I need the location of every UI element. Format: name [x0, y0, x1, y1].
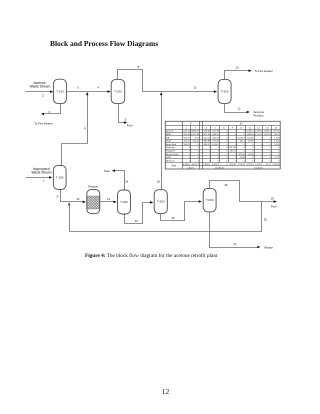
svg-text:T-250: T-250 — [56, 175, 64, 179]
svg-text:701.17: 701.17 — [230, 151, 237, 153]
section heading — [50, 39, 158, 48]
svg-text:10,639.35: 10,639.35 — [215, 167, 225, 169]
svg-text:1: 1 — [42, 94, 44, 98]
svg-text:472.11: 472.11 — [273, 131, 280, 133]
stream 6/10: T-250 bottoms to reactor — [57, 190, 86, 204]
svg-text:15: 15 — [171, 216, 175, 220]
svg-text:Hydrogen: Hydrogen — [166, 146, 176, 149]
svg-text:Total: Total — [171, 165, 176, 168]
vessel T-500 — [154, 190, 167, 214]
svg-text:Water: Water — [166, 140, 172, 143]
svg-text:18: 18 — [224, 183, 228, 187]
svg-text:2,469.7: 2,469.7 — [255, 131, 263, 133]
svg-text:8,126.53: 8,126.53 — [254, 167, 263, 169]
svg-text:13: 13 — [235, 65, 239, 69]
svg-text:187.56: 187.56 — [238, 154, 245, 156]
svg-text:20: 20 — [264, 218, 268, 222]
svg-text:724.12: 724.12 — [192, 141, 199, 143]
svg-text:594.55: 594.55 — [184, 144, 191, 146]
vessel T-200 — [111, 79, 125, 103]
svg-text:Acetic Acid: Acetic Acid — [166, 143, 177, 146]
stream 13: T-400 bottoms to T-500 — [125, 201, 154, 223]
svg-text:1.023: 1.023 — [274, 137, 280, 139]
svg-text:Fuel: Fuel — [271, 204, 277, 208]
svg-text:1,845.2: 1,845.2 — [264, 131, 272, 133]
svg-text:101.39: 101.39 — [212, 131, 219, 133]
svg-text:2,575.1: 2,575.1 — [255, 164, 263, 166]
stream 18/19: T-600 overhead to fuel — [210, 181, 277, 209]
svg-text:87.95: 87.95 — [248, 141, 254, 143]
vessel T-250 — [53, 165, 66, 189]
svg-text:Product: Product — [254, 114, 264, 118]
svg-text:876.53: 876.53 — [230, 164, 237, 166]
svg-text:24.66: 24.66 — [248, 154, 254, 156]
svg-text:19: 19 — [271, 197, 275, 201]
stream 16: T-500 overhead joining stream 8 — [157, 92, 163, 189]
svg-text:2,027.8: 2,027.8 — [272, 164, 280, 166]
svg-text:T-500: T-500 — [157, 200, 165, 204]
vessel T-400 — [118, 190, 131, 214]
svg-text:16: 16 — [157, 179, 161, 183]
svg-text:2,677.09: 2,677.09 — [202, 134, 211, 136]
stream 5: T-200 bottoms to fuel — [119, 104, 133, 128]
svg-text:3,227.5: 3,227.5 — [246, 164, 254, 166]
svg-text:8: 8 — [137, 65, 139, 69]
vessel T-600 — [203, 188, 216, 212]
stream 2: T-100 bottoms to fire heater — [34, 104, 60, 126]
svg-text:12: 12 — [237, 106, 241, 110]
stream 3/4: T-100 overhead to T-200 — [67, 86, 111, 93]
svg-text:7,048.2: 7,048.2 — [203, 164, 211, 166]
svg-text:Waste Stream: Waste Stream — [30, 85, 51, 89]
svg-text:5: 5 — [125, 118, 127, 122]
svg-text:2,139.89: 2,139.89 — [202, 131, 211, 133]
svg-text:1,524.1: 1,524.1 — [212, 144, 220, 146]
svg-text:12: 12 — [107, 197, 111, 201]
svg-text:1,214.1: 1,214.1 — [255, 134, 263, 136]
svg-text:Fuel: Fuel — [104, 169, 110, 173]
svg-text:T-400: T-400 — [120, 200, 128, 204]
svg-text:Methanol: Methanol — [166, 159, 175, 162]
svg-text:13: 13 — [135, 219, 139, 223]
stream 13: T-300 overhead to fire heater — [225, 65, 273, 79]
svg-text:3: 3 — [77, 86, 79, 90]
stream 9: T-250 overhead joining stream 3 — [62, 92, 89, 165]
svg-text:MIBK: MIBK — [166, 134, 172, 136]
feed stream 1: acetone waste — [26, 81, 54, 98]
svg-text:147.56: 147.56 — [212, 141, 219, 143]
svg-text:1,057.38: 1,057.38 — [191, 134, 200, 136]
svg-text:504.67: 504.67 — [184, 137, 191, 139]
svg-text:147.2: 147.2 — [240, 141, 246, 143]
stream 14: T-400 overhead to fuel — [104, 169, 129, 190]
stream 20: recycle to reactor feed — [70, 202, 268, 232]
svg-text:Propylene: Propylene — [166, 150, 176, 153]
svg-text:Reactor: Reactor — [88, 184, 98, 188]
svg-text:Acetone: Acetone — [166, 130, 174, 133]
svg-text:2,502.2: 2,502.2 — [212, 164, 220, 166]
svg-text:T-600: T-600 — [206, 198, 214, 202]
svg-text:T-200: T-200 — [114, 90, 122, 94]
svg-text:143.66: 143.66 — [247, 137, 254, 139]
svg-text:1,893.4: 1,893.4 — [246, 134, 254, 136]
stream 17: T-600 bottoms to waste — [210, 212, 274, 250]
stream 8: T-200 overhead — [118, 65, 218, 93]
svg-text:T-100: T-100 — [56, 89, 64, 93]
svg-text:4,671.4: 4,671.4 — [192, 164, 200, 166]
page number — [162, 387, 170, 396]
svg-text:1,025.9: 1,025.9 — [238, 137, 246, 139]
svg-text:1,025: 1,025 — [274, 144, 280, 146]
svg-text:95.71: 95.71 — [266, 164, 272, 166]
vessel T-100 — [53, 79, 66, 103]
svg-text:11.89: 11.89 — [240, 157, 246, 159]
svg-text:17: 17 — [233, 242, 237, 246]
svg-text:4,499.1: 4,499.1 — [183, 164, 191, 166]
svg-text:10: 10 — [76, 197, 80, 201]
stream 12: T-300 bottoms acetone product — [225, 104, 265, 118]
svg-text:11: 11 — [194, 85, 197, 89]
svg-text:DIPE: DIPE — [166, 157, 171, 159]
stream 12: reactor effluent to T-400 — [100, 197, 117, 203]
svg-text:86.72: 86.72 — [274, 134, 280, 136]
stream summary table — [165, 121, 280, 169]
recycle stream 20 junction arrow — [68, 202, 71, 205]
reactor R-100 — [87, 184, 100, 213]
svg-text:994.57: 994.57 — [204, 144, 211, 146]
svg-text:Mesityl Oxide: Mesityl Oxide — [166, 153, 179, 156]
svg-text:Waste: Waste — [264, 246, 273, 250]
svg-text:Waste Stream: Waste Stream — [31, 170, 51, 174]
svg-text:105.33: 105.33 — [264, 134, 271, 136]
svg-text:Fuel: Fuel — [127, 124, 133, 128]
svg-text:7: 7 — [43, 179, 45, 183]
feed stream 7: isopropanol waste — [26, 167, 53, 183]
svg-text:4,637.1: 4,637.1 — [187, 167, 195, 169]
svg-text:280.61: 280.61 — [212, 137, 219, 139]
svg-text:T-300: T-300 — [221, 90, 229, 94]
svg-text:212.42: 212.42 — [238, 164, 245, 166]
svg-text:6: 6 — [57, 195, 59, 199]
figure caption — [85, 253, 217, 259]
svg-text:1.775: 1.775 — [274, 157, 280, 159]
svg-text:1,150.61: 1,150.61 — [202, 137, 211, 139]
svg-text:14: 14 — [125, 179, 129, 183]
svg-text:To Fire Heater: To Fire Heater — [34, 121, 52, 125]
svg-text:5,060.1: 5,060.1 — [246, 131, 254, 133]
svg-text:1,204: 1,204 — [274, 141, 280, 143]
svg-text:985.98: 985.98 — [204, 141, 211, 143]
stream 15: T-500 bottoms to T-600 — [161, 200, 202, 220]
vessel T-300 — [218, 79, 231, 103]
svg-text:4: 4 — [97, 86, 99, 90]
svg-text:750.51: 750.51 — [184, 141, 191, 143]
svg-text:To Fire Heater: To Fire Heater — [254, 69, 272, 73]
svg-text:175.361: 175.361 — [229, 147, 238, 149]
svg-text:9: 9 — [84, 127, 86, 131]
svg-text:448.55: 448.55 — [212, 134, 219, 136]
svg-text:2,880.61: 2,880.61 — [191, 131, 200, 133]
